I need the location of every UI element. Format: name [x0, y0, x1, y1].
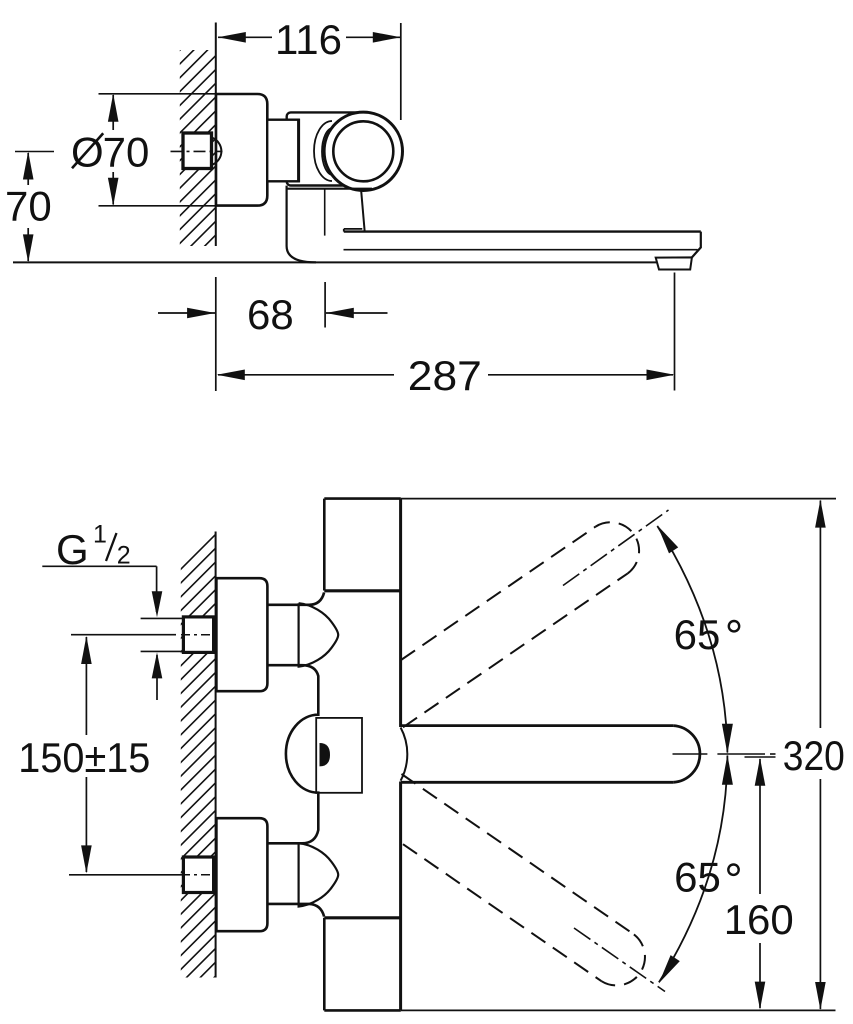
lower G1/2 square [183, 857, 213, 893]
svg-text:70: 70 [103, 129, 150, 176]
neck (side view) [267, 120, 298, 182]
spout top edge [344, 230, 701, 232]
upper escutcheon (plan) [216, 578, 267, 691]
spout inner line [344, 249, 698, 251]
dim 70 [15, 151, 54, 153]
dim dia70 ext lines [99, 93, 217, 95]
body left contour middle [267, 665, 318, 843]
svg-text:320: 320 [783, 732, 845, 779]
sensor knob inner circle [333, 121, 393, 181]
body bottom cap rect [323, 918, 326, 1011]
65 deg arc upper [657, 526, 727, 753]
spout centerline [673, 753, 708, 755]
svg-text:1: 1 [93, 521, 107, 549]
dim 287 [674, 273, 676, 391]
drum left edge [297, 119, 300, 183]
sensor knob outer circle [324, 112, 402, 190]
inlet arc behind square [212, 138, 222, 166]
upper capsule centerline [563, 510, 669, 586]
160 ref line [745, 756, 776, 758]
dim 116 [400, 23, 402, 120]
lower dashed spout position [402, 774, 634, 934]
dim 68 [215, 277, 217, 391]
spout holder step [344, 228, 363, 230]
svg-text:287: 287 [408, 352, 482, 399]
drum silhouette arcs [314, 121, 332, 181]
svg-text:70: 70 [5, 183, 52, 230]
dim 150±15 [71, 634, 176, 636]
body mid vertical line [324, 189, 326, 236]
spout capsule (plan) [401, 724, 673, 727]
body right slant edge [361, 189, 365, 231]
lower capsule centerline [574, 928, 665, 992]
lower bullet valve [299, 843, 339, 906]
centerline of fitting [171, 150, 223, 152]
valve body plate (side view) [287, 112, 363, 185]
box top line [324, 497, 401, 500]
outlet mousseur [656, 257, 692, 269]
svg-text:116: 116 [275, 16, 342, 63]
upper dashed spout position [401, 527, 596, 660]
body top cap rect [323, 499, 326, 591]
dim 320 [819, 501, 821, 729]
baseline under faucet [13, 261, 657, 263]
G1/2 ext lines [141, 617, 184, 619]
wall face line (top view) [215, 23, 217, 247]
G1/2 leader [42, 565, 156, 567]
svg-text:150±15: 150±15 [18, 734, 150, 781]
upper bullet valve [299, 603, 339, 666]
box bottom line [324, 1009, 401, 1012]
body left contour lower [267, 904, 324, 917]
dim 160 [759, 759, 761, 894]
spout right end [692, 232, 701, 258]
spout joint arc [401, 728, 408, 781]
wall hatching (top view) [0, 0, 603, 300]
upper G1/2 square [183, 617, 213, 653]
body left contour upper [267, 593, 324, 605]
escutcheon flange (side view) [216, 94, 267, 206]
sensor window blob [320, 743, 331, 766]
svg-text:160: 160 [724, 896, 794, 943]
lower body left contour [287, 186, 316, 263]
sensor window box [316, 718, 362, 793]
svg-text:65: 65 [674, 611, 721, 658]
body seam line [287, 188, 372, 190]
svg-text:68: 68 [247, 291, 294, 338]
lower escutcheon (plan) [216, 818, 267, 931]
dim dia70 [112, 95, 114, 130]
body right edge [399, 499, 402, 727]
G1/2 square fitting (side view) [183, 133, 212, 169]
65 deg arc lower [659, 756, 728, 983]
svg-text:2: 2 [117, 542, 131, 570]
G1/2 lower arrow [156, 655, 158, 700]
svg-text:65: 65 [674, 853, 721, 900]
wall face line (bottom view) [215, 532, 217, 978]
